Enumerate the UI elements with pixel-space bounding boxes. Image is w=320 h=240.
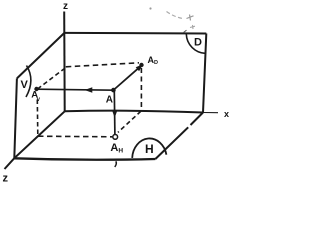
- pencil smudge wavy stroke: [167, 12, 185, 19]
- projection arrow A to AD: [113, 67, 140, 90]
- plane H right edge: [155, 113, 203, 160]
- projection arrow A to AH: [113, 91, 116, 135]
- dashed horizontal y-axis fold to AH: [38, 135, 112, 138]
- point A: [111, 88, 116, 93]
- plane D top edge: [64, 32, 206, 35]
- dashed diagonal x-axis fold to AH: [118, 111, 141, 132]
- y-axis (lower-left diagonal, labelled z): [5, 111, 65, 169]
- plane H semicircle arc: [132, 138, 166, 157]
- x-axis extension beyond plane D: [203, 112, 218, 114]
- svg-text:z: z: [3, 173, 9, 185]
- projection line A to Av: [37, 89, 114, 90]
- svg-text:A: A: [110, 142, 118, 154]
- pencil smudge small mark lower: [190, 25, 195, 29]
- dashed line z-axis fold to AD: [66, 63, 139, 67]
- pencil smudge dot top-right: [149, 7, 151, 9]
- svg-text:V: V: [21, 79, 29, 91]
- x-axis: [65, 111, 203, 113]
- plane V left edge: [14, 78, 17, 158]
- dashed vertical below Av: [36, 100, 39, 136]
- plane D right edge: [203, 34, 206, 113]
- svg-text:A: A: [106, 95, 113, 106]
- svg-text:D: D: [154, 60, 158, 66]
- point AH (open circle): [113, 135, 118, 140]
- svg-text:z: z: [63, 1, 68, 12]
- svg-text:H: H: [118, 148, 123, 155]
- pencil smudge cross mark: [187, 15, 194, 21]
- svg-text:H: H: [145, 142, 154, 156]
- point Av: [34, 87, 38, 91]
- point AD: [139, 63, 143, 67]
- arrowhead at AD: [136, 64, 143, 71]
- dashed vertical below AD: [140, 68, 142, 110]
- plane H bottom edge: [14, 158, 155, 159]
- arrowhead on A-Av line: [85, 87, 93, 93]
- stray comma mark below H bottom edge: [115, 161, 117, 167]
- svg-text:x: x: [224, 109, 229, 119]
- plane V corner arc: [26, 66, 31, 98]
- svg-text:D: D: [194, 37, 202, 49]
- z-axis (vertical): [63, 12, 66, 112]
- arrowhead on A-AH line: [112, 110, 118, 118]
- small tick above plane D top edge: [184, 30, 187, 32]
- dashed line Av to z-axis fold: [38, 68, 66, 90]
- plane V top edge: [17, 33, 65, 79]
- plane D corner arc: [186, 34, 205, 53]
